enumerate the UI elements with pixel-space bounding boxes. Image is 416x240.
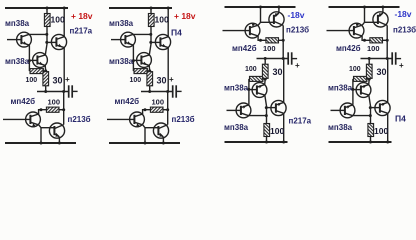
svg-text:мп38а: мп38а <box>328 123 353 132</box>
svg-text:п217а: п217а <box>289 117 312 126</box>
svg-text:+: + <box>65 75 70 84</box>
svg-text:100: 100 <box>270 126 284 136</box>
svg-text:п217а: п217а <box>70 27 93 36</box>
svg-text:мп38а: мп38а <box>5 57 30 66</box>
svg-text:п213б: п213б <box>286 26 309 35</box>
svg-text:100: 100 <box>367 44 380 53</box>
svg-text:п213б: п213б <box>68 115 91 124</box>
svg-text:100: 100 <box>130 77 142 84</box>
circuit 3 (mirrored, п217а variant, -18v) <box>223 6 298 144</box>
svg-text:100: 100 <box>51 15 65 25</box>
svg-text:П4: П4 <box>171 28 182 38</box>
svg-text:100: 100 <box>245 66 257 73</box>
svg-text:100: 100 <box>152 98 165 107</box>
circuit 4 (mirrored, П4 variant, -18v) <box>327 6 402 144</box>
svg-text:мп38а: мп38а <box>109 19 134 28</box>
svg-text:мп38а: мп38а <box>5 19 30 28</box>
svg-text:100: 100 <box>48 98 61 107</box>
svg-text:п213б: п213б <box>172 115 195 124</box>
svg-text:+ 18v: + 18v <box>174 11 196 21</box>
svg-text:100: 100 <box>349 66 361 73</box>
svg-text:100: 100 <box>374 126 388 136</box>
svg-text:-18v: -18v <box>395 9 412 19</box>
circuit 1 (п217а variant, +18v) <box>3 7 78 145</box>
svg-text:мп38а: мп38а <box>224 123 249 132</box>
svg-text:мп42б: мп42б <box>11 97 36 106</box>
svg-text:п213б: п213б <box>393 26 416 35</box>
svg-text:30: 30 <box>53 76 63 86</box>
svg-text:+: + <box>169 75 174 84</box>
svg-text:+: + <box>295 61 300 70</box>
svg-text:100: 100 <box>26 77 38 84</box>
svg-text:мп42б: мп42б <box>232 44 257 53</box>
svg-text:мп38а: мп38а <box>109 57 134 66</box>
svg-text:+: + <box>399 61 404 70</box>
svg-text:30: 30 <box>157 76 167 86</box>
svg-text:100: 100 <box>263 44 276 53</box>
svg-text:мп38а: мп38а <box>224 84 249 93</box>
svg-text:мп42б: мп42б <box>115 97 140 106</box>
svg-text:мп42б: мп42б <box>336 44 361 53</box>
svg-text:П4: П4 <box>395 114 406 124</box>
circuit 2 (П4 variant, +18v) <box>107 7 182 145</box>
svg-text:100: 100 <box>155 15 169 25</box>
svg-text:мп38а: мп38а <box>328 84 353 93</box>
svg-text:+ 18v: + 18v <box>71 11 93 21</box>
svg-text:30: 30 <box>273 67 283 77</box>
svg-text:30: 30 <box>377 67 387 77</box>
svg-text:-18v: -18v <box>288 10 305 20</box>
